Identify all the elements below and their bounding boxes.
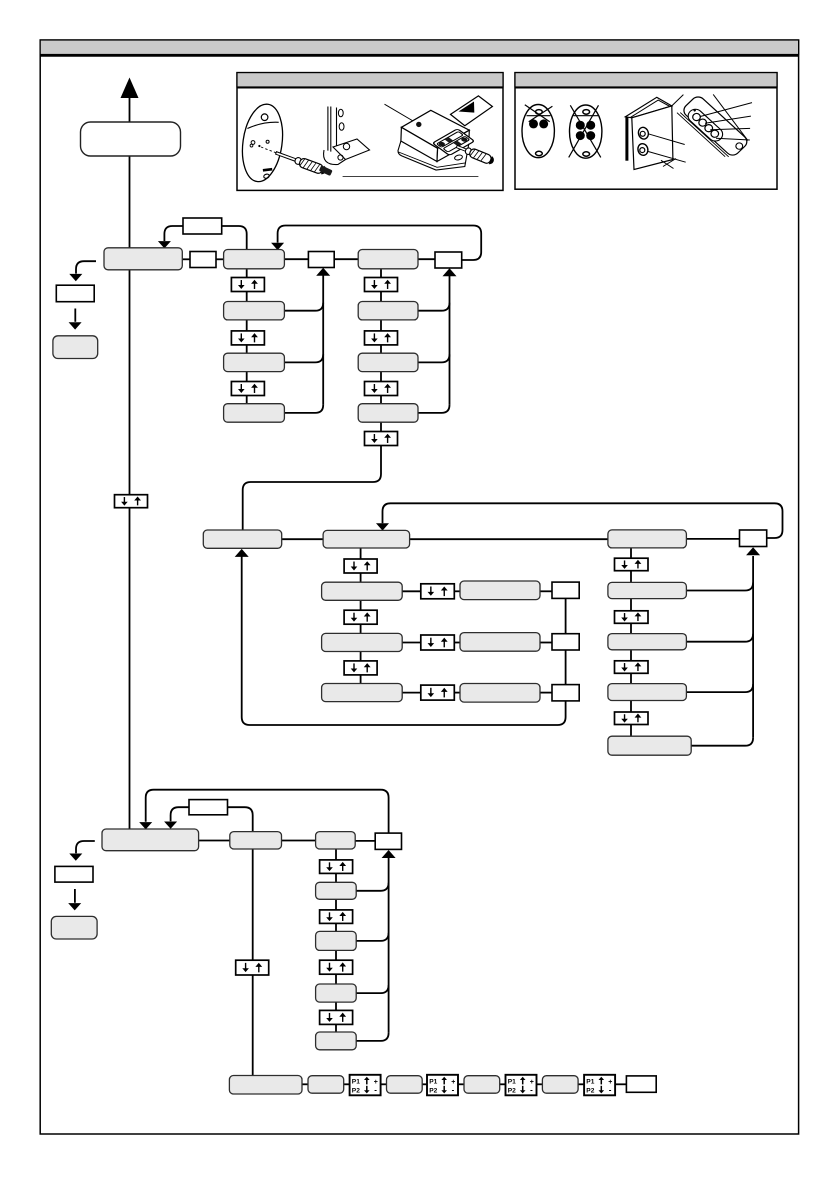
panel 2 header bar [515, 73, 777, 87]
dd box B3 [365, 382, 398, 396]
wire M3 chain [630, 548, 632, 736]
remote A button right [539, 119, 548, 128]
remote B buttons [576, 121, 595, 140]
wire row2 dd to GW2 [454, 642, 460, 644]
screwdriver 2 [455, 142, 495, 165]
dd box LT4 [320, 1010, 353, 1024]
box WS row3 [552, 685, 579, 701]
plate bottom wedge [263, 169, 272, 170]
wire connector A3 [284, 405, 323, 413]
wire square W1s to G3 [334, 258, 358, 260]
box M1 menu2 entry [203, 530, 281, 548]
wire column A chain [246, 269, 248, 422]
box B row3 [358, 404, 418, 423]
dd box LT2 [320, 910, 353, 924]
plate top hole [261, 114, 268, 121]
box exit display upper [56, 285, 94, 302]
dashed leader to screwdriver [261, 147, 276, 153]
dd box A3 [231, 382, 264, 396]
dd box M2c [344, 661, 377, 675]
wire bottom row 7 [537, 1083, 543, 1085]
wire W1 right [222, 226, 247, 250]
wall switch top face inner line [630, 100, 670, 117]
panel 1 header underline [237, 87, 503, 89]
panel 2 header underline [515, 87, 777, 89]
box MR row1 [608, 582, 687, 598]
start rounded box [81, 122, 181, 156]
box exit display lower [55, 866, 93, 882]
control unit left face [401, 127, 438, 161]
box L1 menu3 entry [102, 829, 199, 851]
box GW row3 wide [460, 684, 540, 703]
wire G2 to square W1s [284, 258, 308, 260]
wire exit arrow upper [74, 309, 76, 322]
panel 1 header bar [237, 73, 503, 87]
wire W1 left [164, 226, 183, 241]
box exit target upper [53, 336, 98, 359]
wire connector A1 [284, 303, 323, 311]
dd box A2 [231, 331, 264, 345]
dd box M3a [615, 558, 649, 571]
p1p2 box 1 [350, 1075, 381, 1096]
arrowhead up into M1 [235, 549, 249, 557]
title bar underline [40, 54, 798, 56]
gate post [328, 107, 344, 152]
battery compartment [433, 129, 475, 156]
remote A seam [527, 115, 551, 117]
box A row2 [224, 353, 285, 371]
post foot bracket [324, 139, 370, 165]
control unit top face [401, 110, 469, 148]
wire G1 to small box [182, 258, 190, 260]
dd box on spine [115, 495, 148, 508]
wall switch front face [632, 106, 673, 170]
wire M2 chain [360, 548, 362, 684]
wire L2 to L3 [282, 840, 316, 842]
dd box on exit line [236, 960, 269, 975]
wire connector R4 [691, 738, 753, 746]
box bottom end white [626, 1076, 656, 1092]
leader line to unit [385, 104, 439, 139]
wire connector R2 [686, 634, 753, 642]
box MR row3 [608, 684, 687, 701]
box GW row2 wide [460, 633, 540, 652]
box B row1 [358, 302, 418, 320]
box bottom BB2 [308, 1076, 344, 1094]
ground line [343, 176, 479, 178]
wire M1 to M2 [282, 538, 323, 540]
svg-text:-: - [374, 1086, 377, 1095]
wire connector L4c [356, 1033, 388, 1041]
wall switch top face [625, 97, 671, 118]
handheld leader line 4 [716, 138, 750, 140]
wire row3 left stub [402, 692, 421, 694]
wall switch button 1 [637, 126, 650, 140]
plate screws [250, 140, 269, 147]
wire M2 to M3 [410, 538, 608, 540]
svg-text:P1: P1 [508, 1078, 516, 1085]
wire M3 to MW [686, 538, 739, 540]
wire exit branch upper [76, 261, 96, 273]
arrowhead loop into M2 [376, 523, 389, 530]
p1p2 box 4 [584, 1075, 615, 1096]
dd box row2 mid [421, 635, 455, 650]
svg-text:P2: P2 [352, 1087, 360, 1094]
box small W between G1 G2 [190, 252, 216, 268]
svg-text:P1: P1 [586, 1078, 594, 1085]
wire connector R1 [686, 583, 753, 591]
arrowhead up into MW [746, 547, 760, 555]
wire exit branch lower [76, 841, 95, 853]
remote B oval body [570, 105, 602, 158]
box G3 submenu header [358, 250, 418, 269]
box WS row1 [552, 582, 579, 598]
arrowhead into L1 from LWsm [164, 822, 177, 829]
wire LWsm right down to bottom row [228, 807, 253, 1075]
wire connector B1 [418, 303, 450, 311]
box LG row1 [316, 882, 357, 899]
arrowhead exit upper [69, 274, 82, 281]
wire bottom row 6 [500, 1083, 506, 1085]
box LWsm above row [189, 800, 228, 815]
remote A cross line 2 [529, 106, 553, 122]
svg-text:-: - [452, 1086, 455, 1095]
wire lower top loop [146, 790, 389, 833]
wire connector R3 [686, 684, 753, 692]
box A row3 [224, 404, 285, 423]
arrowhead exit lower [69, 854, 82, 861]
box WS row2 [552, 634, 579, 650]
wire connector L3c [356, 985, 388, 993]
arrowhead to menu-exit box upper [69, 322, 82, 329]
plate seam line [247, 122, 278, 128]
wire small box to G2 [216, 258, 224, 260]
wire middle right return vertical [752, 556, 754, 738]
wire row1 dd to GW1 [454, 590, 460, 592]
arrowhead up into square W1s [316, 268, 330, 276]
box exit target lower [51, 916, 97, 939]
wire column B chain and exit to menu2 [243, 269, 381, 530]
svg-text:P2: P2 [429, 1087, 437, 1094]
wire row3 dd to GW3 [454, 692, 460, 694]
box square W1s [308, 252, 334, 268]
remote B cross line 1 [570, 105, 601, 157]
box bottom BB4 [464, 1076, 500, 1094]
box square W2s [435, 252, 462, 268]
remote A button left [529, 119, 538, 128]
p1p2 box 2 [427, 1075, 458, 1096]
dd box row1 mid [421, 584, 455, 599]
wire exit arrow lower [74, 889, 76, 903]
dd box LT3 [320, 960, 353, 974]
wire row2 left stub [402, 642, 421, 644]
wire bottom row 5 [458, 1083, 464, 1085]
handheld remote group (local coords rotated) [677, 93, 750, 160]
handheld leader line 1 [700, 103, 752, 117]
box LG row3 [316, 984, 357, 1002]
remote B seam [574, 115, 599, 117]
wire G3 to square W2s [418, 258, 435, 260]
dd box B2 [365, 331, 398, 345]
remote A cross line 1 [525, 105, 550, 122]
remote B bottom hole [583, 152, 590, 156]
box G2 submenu header [224, 250, 285, 269]
remote A oval body [522, 105, 554, 158]
wire bottom row 2 [344, 1083, 350, 1085]
svg-text:-: - [530, 1086, 533, 1095]
svg-text:P2: P2 [508, 1087, 516, 1094]
wire bottom return loop to M1 [242, 556, 566, 725]
box A row1 [224, 302, 285, 320]
wall switch corner leader [672, 95, 684, 106]
box M2 submenu2 header [323, 530, 410, 548]
wire WS2 to WS3 [565, 650, 567, 685]
svg-text:P2: P2 [586, 1087, 594, 1094]
wire WS1 to WS2 [565, 598, 567, 633]
box bottom BB5 [542, 1076, 578, 1094]
box bottom BB1 [229, 1076, 302, 1095]
dd box B4 [365, 432, 398, 446]
wall switch button 2 [637, 143, 650, 157]
svg-text:P1: P1 [429, 1078, 437, 1085]
wire bottom row 8 [578, 1083, 584, 1085]
box L3 [316, 832, 356, 849]
wire column B return vertical [449, 275, 451, 405]
box MR row4 last [608, 736, 691, 755]
wire top return loop [278, 226, 482, 261]
wall switch left edge [625, 116, 628, 161]
control unit right face [437, 130, 469, 161]
p1p2 box 3 [506, 1075, 537, 1096]
dd box M3b [615, 611, 649, 624]
box B row2 [358, 353, 418, 371]
box ML row3 [322, 684, 403, 702]
wire connector L2c [356, 933, 388, 941]
wire connector A2 [284, 354, 323, 362]
wire connector B2 [418, 354, 450, 362]
wire lower return vertical [388, 855, 390, 1033]
wire connector L1c [356, 883, 388, 891]
arrowhead into box G1 [158, 241, 171, 248]
svg-text:-: - [609, 1086, 612, 1095]
arrowhead up into square W2s [443, 268, 457, 276]
arrowhead up into LW [382, 850, 396, 858]
remote A top hole [536, 110, 543, 115]
arrowhead to menu-exit box lower [68, 903, 81, 910]
panel 2 frame [515, 73, 777, 190]
arrowhead loop into L1 [139, 822, 152, 829]
wire connector B3 [418, 405, 450, 413]
handheld leader line 2 [705, 116, 751, 123]
box LG row2 [316, 931, 357, 950]
arrow card [451, 96, 493, 126]
wire bottom row 9 [615, 1083, 626, 1085]
remote B top hole [583, 110, 590, 115]
dd box M3c [615, 661, 649, 674]
wire L1 to L2 [199, 840, 230, 842]
box MR row2 [608, 634, 687, 650]
box M3 right column header [608, 530, 687, 548]
unit screw hole [416, 122, 421, 127]
wire bottom row 4 [422, 1083, 427, 1085]
wire bottom row 3 [381, 1083, 387, 1085]
screwdriver 1 [274, 149, 327, 176]
dd box B1 [365, 278, 398, 292]
wall switch leader line 2 [648, 152, 686, 163]
wall switch bottom ticks [661, 159, 676, 169]
arrowhead loop into G2 [271, 243, 284, 250]
plate bottom ring [263, 173, 270, 179]
box GW row1 wide [460, 581, 540, 600]
dd box LT1 [320, 860, 353, 874]
remote B cross line 2 [569, 105, 599, 157]
handheld remote seam line [713, 94, 748, 140]
box MW white [740, 530, 767, 547]
wire row1 left stub [402, 590, 421, 592]
handheld leader line 3 [710, 128, 750, 129]
wire LWsm left [171, 807, 189, 821]
svg-text:P1: P1 [352, 1078, 360, 1085]
oval cover plate [238, 102, 287, 185]
box bottom BB3 [387, 1076, 423, 1094]
wire GW1 to WS1 [540, 590, 552, 592]
wire GW3 to WS3 [540, 692, 552, 694]
wall switch leader line 1 [648, 134, 685, 145]
unit base flange [398, 141, 469, 170]
top title bar [40, 40, 798, 55]
wire L3 to LW [355, 840, 375, 842]
release lock cylinder [319, 165, 333, 176]
wire middle top loop [383, 503, 783, 538]
dd box row3 mid [421, 685, 455, 700]
box W1 over row [183, 218, 222, 234]
dd box M2a [344, 559, 377, 573]
box LG row4 last [316, 1032, 357, 1050]
box ML row2 [322, 633, 403, 651]
wire lower chain [335, 849, 337, 1032]
panel 1 frame [237, 73, 503, 191]
box L2 [230, 832, 282, 849]
box G1 main menu 1 [104, 248, 182, 270]
start arrow up [121, 78, 139, 99]
dd box M2b [344, 610, 377, 624]
dd box M3d [615, 712, 649, 725]
box LW white [375, 833, 401, 849]
wire bottom row 1 [302, 1083, 308, 1085]
wire main spine [129, 98, 131, 830]
dd box A1 [231, 278, 264, 292]
box ML row1 [322, 582, 403, 600]
wire GW2 to WS2 [540, 642, 552, 644]
remote A bottom hole [536, 151, 543, 155]
wire column A return vertical [322, 275, 324, 405]
